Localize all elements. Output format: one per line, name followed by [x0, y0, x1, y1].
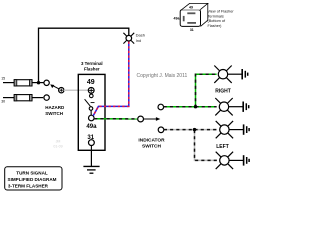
- svg-text:3 Terminal: 3 Terminal: [81, 61, 103, 66]
- svg-text:Flasher: Flasher: [84, 67, 100, 72]
- wire: contact to 49a: [90, 110, 92, 115]
- svg-text:49a: 49a: [174, 16, 180, 20]
- wire + ground lamp right-rear: [228, 102, 248, 112]
- svg-text:15: 15: [1, 76, 5, 80]
- wire: gray wire hazard switch to flasher 49: [64, 89, 88, 91]
- flasher bimetal tick: [91, 102, 95, 104]
- lamp right-front: [214, 66, 231, 83]
- flasher view: slot 49: [187, 12, 195, 14]
- terminal 49: [88, 88, 94, 94]
- svg-text:HAZARD: HAZARD: [45, 105, 65, 110]
- svg-text:LEFT: LEFT: [216, 144, 229, 150]
- svg-text:49: 49: [189, 6, 193, 10]
- svg-text:Terminals: Terminals: [208, 14, 224, 18]
- lamp left-rear: [216, 152, 233, 169]
- wire + ground lamp left-front: [229, 124, 249, 134]
- svg-text:SWITCH: SWITCH: [45, 111, 63, 116]
- terminal 49a node: [89, 115, 95, 121]
- svg-text:View of Flasher: View of Flasher: [208, 9, 235, 13]
- svg-text:31: 31: [190, 28, 194, 32]
- svg-text:30: 30: [1, 100, 5, 104]
- wire: fuse 15 to hazard switch: [32, 82, 44, 84]
- hazard switch upper contact: [44, 80, 49, 85]
- wire + ground lamp left-rear: [229, 155, 249, 165]
- lamp left-front: [216, 121, 233, 138]
- svg-text:TURN SIGNAL: TURN SIGNAL: [16, 171, 48, 176]
- svg-text:SIMPLIFIED DIAGRAM: SIMPLIFIED DIAGRAM: [8, 177, 57, 182]
- svg-text:Dash: Dash: [136, 32, 145, 37]
- svg-text:Copyright J. Mais 2011: Copyright J. Mais 2011: [137, 73, 188, 79]
- svg-text:SWITCH: SWITCH: [142, 143, 161, 149]
- wire: fuse 30 to hazard switch lower contact: [32, 97, 43, 99]
- node: junction fuse15/feed: [37, 81, 40, 84]
- indicator switch lower contact: [158, 127, 164, 133]
- svg-text:Ind: Ind: [136, 38, 142, 43]
- flasher contact lower: [89, 107, 93, 111]
- wire: 49 terminal to contact: [90, 92, 92, 95]
- indicator switch upper contact: [158, 104, 164, 110]
- hazard switch blade arrow: [50, 84, 59, 89]
- node: gray junction: [193, 128, 196, 131]
- hazard switch common connector: [59, 88, 64, 93]
- wire: battery feed top run: [39, 28, 129, 82]
- svg-text:JM: JM: [56, 140, 61, 144]
- svg-text:INDICATOR: INDICATOR: [138, 137, 165, 143]
- flasher box: [78, 74, 105, 150]
- wire: terminal 31 to box bottom: [90, 146, 92, 151]
- wire: left feed to fuse 15: [3, 82, 15, 84]
- wire: blue/red dash-ind wire to 49a: [93, 42, 129, 116]
- lamp right-rear: [215, 98, 232, 115]
- fuse F2 30A: [14, 95, 32, 101]
- fuse F1 15A: [14, 80, 32, 86]
- svg-text:3-TERM FLASHER: 3-TERM FLASHER: [8, 183, 49, 188]
- indicator switch common contact: [138, 116, 144, 122]
- svg-text:49a: 49a: [86, 123, 97, 130]
- svg-text:(Bottom of: (Bottom of: [208, 19, 226, 23]
- wire: gray to left lamps: [164, 130, 217, 161]
- svg-text:01-09: 01-09: [53, 145, 62, 149]
- svg-text:Flasher): Flasher): [208, 24, 223, 28]
- flasher switch blade: [85, 99, 91, 106]
- terminal 31: [89, 140, 95, 146]
- svg-text:RIGHT: RIGHT: [215, 89, 231, 95]
- ground under flasher: [83, 150, 99, 173]
- flasher bottom view: top face: [182, 3, 208, 9]
- wire: left feed to fuse 30: [3, 97, 15, 99]
- flasher view: slot 31: [187, 22, 196, 24]
- flasher bottom view: side face: [201, 3, 208, 26]
- node: green junction: [194, 105, 197, 108]
- flasher view: slot 49a: [183, 16, 185, 21]
- wire: green 49a to indicator switch common: [94, 118, 137, 120]
- dash indicator lamp: [123, 33, 134, 44]
- wire: green to right lamps: [164, 74, 217, 107]
- hazard switch lower contact: [44, 95, 49, 100]
- flasher contact upper: [90, 94, 94, 98]
- wire + ground lamp right-front: [227, 69, 247, 79]
- indicator switch blade arrow: [144, 117, 161, 121]
- title block: [5, 167, 62, 190]
- flasher bottom view: front face: [180, 10, 200, 27]
- svg-text:49: 49: [87, 79, 95, 86]
